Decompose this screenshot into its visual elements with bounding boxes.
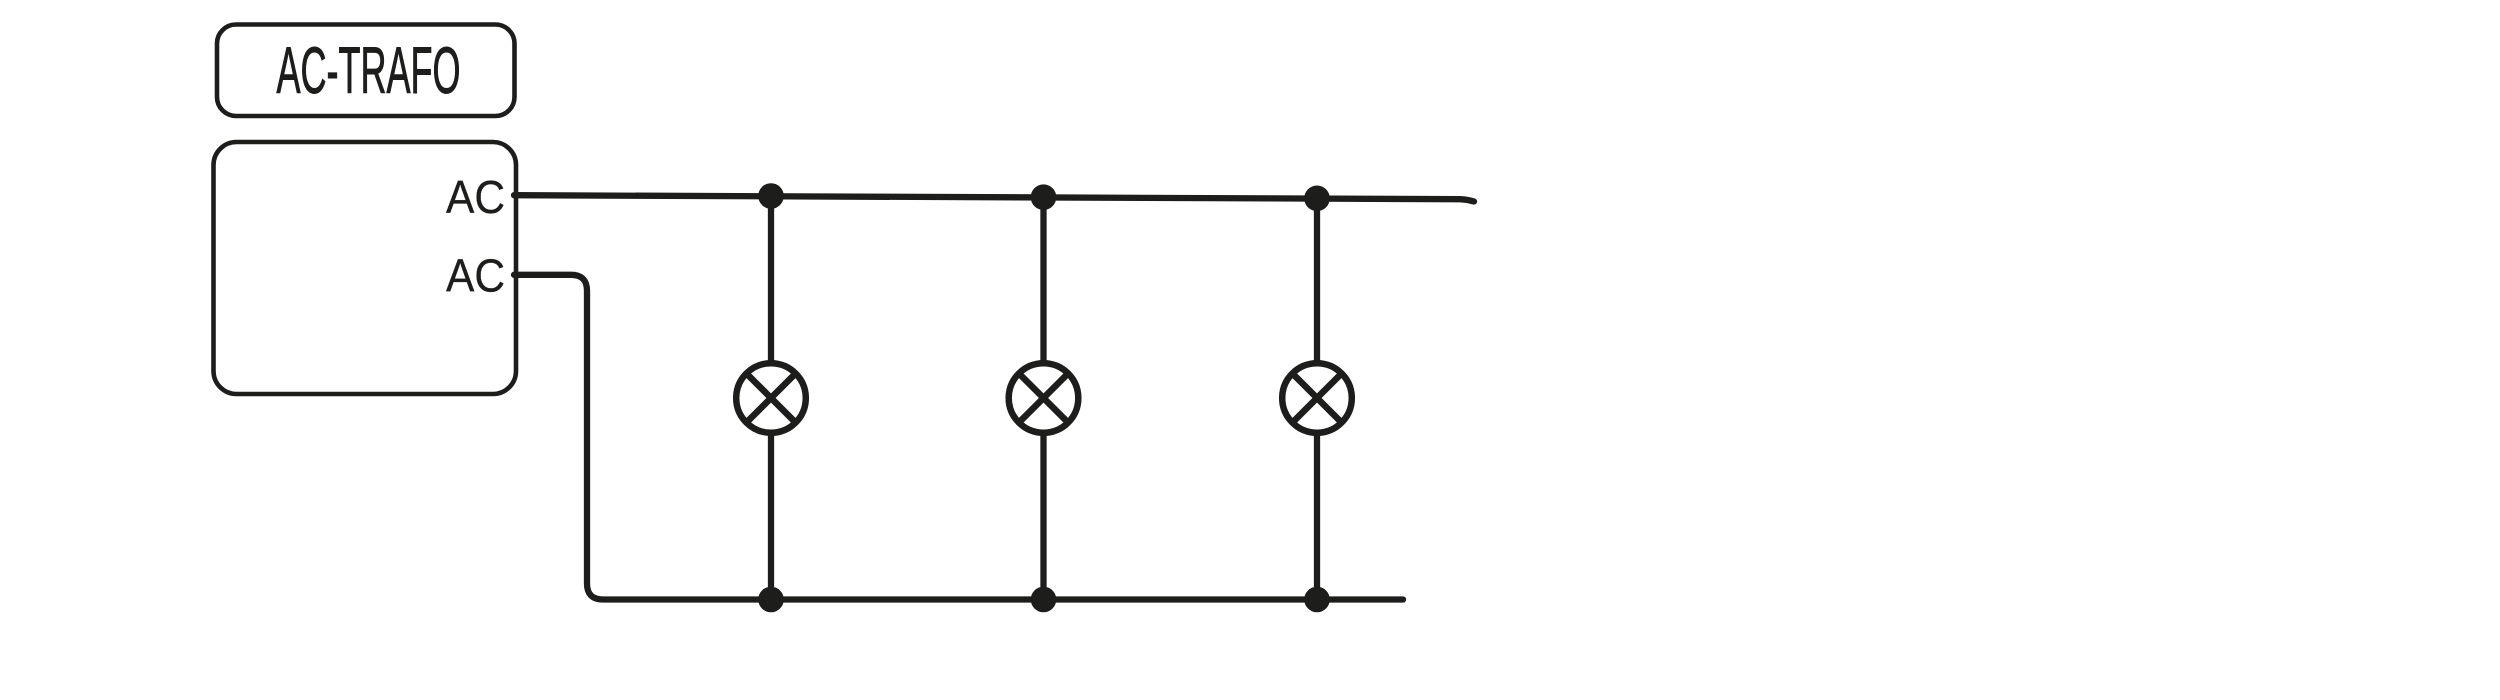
lamp E2 (circle with X) <box>1009 363 1079 433</box>
wire lamp branch 2 (vertical) <box>1040 197 1046 600</box>
junction bottom node 1 <box>758 587 784 613</box>
junction top node 2 <box>1031 184 1057 210</box>
junction top node 3 <box>1304 186 1330 212</box>
wire lamp branch 1 (vertical) <box>768 196 774 600</box>
junction bottom node 2 <box>1031 587 1057 613</box>
junction bottom node 3 <box>1304 587 1330 613</box>
transformer box U1 <box>214 142 517 394</box>
wire lamp branch 3 (vertical) <box>1314 198 1320 599</box>
junction top node 1 <box>758 183 784 209</box>
wire bottom AC: right, down, right bus <box>514 275 1403 600</box>
svg-text:AC: AC <box>446 250 505 302</box>
label box AC-TRAFO <box>217 25 515 117</box>
svg-text:AC: AC <box>446 171 505 223</box>
svg-text:AC-TRAFO: AC-TRAFO <box>277 34 461 107</box>
lamp E3 (circle with X) <box>1282 363 1352 433</box>
lamp E1 (circle with X) <box>736 363 806 433</box>
wire top AC bus <box>514 195 1474 201</box>
